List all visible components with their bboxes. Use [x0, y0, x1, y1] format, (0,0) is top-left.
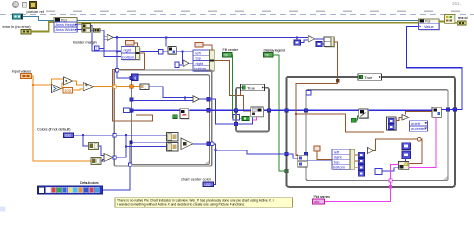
- wire percent into loop: [94, 86, 132, 88]
- constant boolean in C: [242, 116, 249, 120]
- constant numeric near scale: [294, 40, 300, 45]
- function divide: [64, 77, 73, 85]
- for-loop E frame: [306, 90, 448, 181]
- wire diamond up to lines node: [405, 112, 432, 115]
- wire down into loop: [117, 37, 130, 78]
- constant 32: [316, 42, 322, 47]
- node set pen state: [359, 109, 369, 119]
- constant rect in E: [314, 146, 320, 151]
- bundle right/bottom: [121, 47, 140, 61]
- function multiply percent: [83, 83, 93, 91]
- constant 100: [63, 87, 72, 93]
- node empty picture: [124, 108, 131, 113]
- wire plot names pink: [325, 165, 399, 202]
- svg-text:2: 2: [95, 47, 97, 51]
- tunnel pair right edge: [207, 97, 211, 101]
- comment free label: [115, 198, 293, 207]
- tunnel count in C: [234, 122, 237, 125]
- case D selector: [358, 74, 381, 80]
- constant boolean in E: [351, 118, 356, 122]
- wire to bundle a: [126, 134, 167, 136]
- wire count inside C: [238, 117, 253, 124]
- function max compare: [183, 60, 189, 66]
- tunnel picture out E: [446, 108, 449, 111]
- node draw legend text: [251, 107, 265, 118]
- wire i chain: [133, 99, 193, 101]
- wire colors: [74, 134, 126, 136]
- wire const to draw text: [382, 168, 398, 171]
- node junction orange: [32, 84, 34, 86]
- node destroy subvi: [445, 15, 456, 25]
- function quotient height: [82, 24, 91, 28]
- tunnel select out: [113, 156, 116, 159]
- wire size right: [149, 87, 193, 98]
- loop E corner glyph: [443, 176, 447, 180]
- terminal Fill center boolean: [223, 53, 233, 58]
- node unbundle boundaries: [332, 149, 355, 170]
- wire boolean to pen: [356, 116, 359, 120]
- terminal Plot names: [313, 199, 325, 204]
- wire convert to draw node: [163, 51, 168, 53]
- junction ring brown: [417, 137, 421, 141]
- node draw arc: [180, 109, 190, 120]
- wire cluster inside D: [296, 82, 338, 155]
- case C selector: [241, 84, 265, 90]
- wire branch down: [184, 97, 186, 100]
- wire width to scale: [91, 29, 94, 31]
- toolbar icon pause: [23, 3, 27, 8]
- wire cluster branch: [296, 114, 384, 132]
- wire display legend boolean: [273, 55, 285, 171]
- loop E conditional box: [306, 90, 311, 95]
- node junction: [165, 36, 167, 38]
- tunnel blue lower on loop B: [130, 98, 133, 101]
- wire const pair to node: [405, 159, 407, 162]
- node junction: [116, 50, 118, 52]
- ring constants alignment: [410, 121, 428, 131]
- wire stubs unbundle to bubbles: [355, 155, 359, 167]
- svg-text:abc: abc: [314, 200, 320, 204]
- wire error in: [31, 22, 54, 32]
- svg-text:bottom: bottom: [333, 165, 345, 170]
- tunnel picture out D: [453, 108, 456, 111]
- wire brown pen drop: [344, 114, 346, 118]
- svg-text:261,.: 261,.: [452, 1, 462, 6]
- terminal error in: [21, 29, 31, 34]
- constant picture convert: [159, 50, 164, 55]
- wire cluster down into big case: [334, 42, 338, 84]
- wire rect const to unbundle: [317, 151, 332, 159]
- wire up to divide: [51, 79, 63, 85]
- property node Value: [419, 19, 441, 31]
- function subtract margin: [107, 34, 113, 40]
- constant small blue: [175, 62, 179, 68]
- wire pink string out: [409, 117, 436, 168]
- wire to convert box: [117, 50, 159, 52]
- svg-text:::: ::: [144, 86, 146, 90]
- tunnel on loop bottom: [128, 163, 131, 166]
- function select: [104, 154, 113, 162]
- case D frame: [287, 77, 455, 187]
- wire colors in chain: [133, 141, 167, 143]
- tunnel blue top on loop A: [115, 68, 118, 71]
- node array size: [140, 84, 149, 90]
- scrollbar corner smudge: [0, 207, 6, 212]
- tunnel ring: [210, 142, 214, 146]
- tunnel picture right pair: [207, 109, 211, 113]
- wire subvi to error out: [455, 22, 457, 24]
- toolbar icon font: [30, 2, 37, 9]
- tunnel color in D: [285, 152, 288, 155]
- wire error to subvi: [439, 21, 445, 23]
- constant numeric left of case: [233, 114, 240, 120]
- terminal picture ref: [13, 14, 23, 19]
- wire to bundle b: [126, 146, 167, 148]
- wire check2 to select: [101, 159, 104, 161]
- wire picture to value node: [406, 26, 462, 109]
- function min index: [193, 96, 200, 102]
- wire min out tunnel: [200, 98, 211, 100]
- svg-text:I wanted something without Act: I wanted something without Active X and …: [117, 203, 245, 207]
- node junction brown: [295, 113, 297, 115]
- grayed tick labels above boundary: [46, 11, 460, 13]
- tunnel picture in D: [285, 109, 288, 112]
- wire pair to unbundle: [307, 159, 332, 161]
- wire input values main: [32, 76, 92, 161]
- wire build out: [373, 139, 417, 150]
- svg-text:Fill center: Fill center: [223, 48, 239, 52]
- function multiply scale: [308, 36, 315, 42]
- svg-text:chart center color: chart center color: [181, 177, 212, 181]
- bundle left/top/right/bottom: [193, 50, 214, 72]
- wire colors vertical: [115, 135, 127, 157]
- node draw multiple lines: [432, 107, 442, 118]
- tunnel picture on loop B: [130, 109, 133, 112]
- visible-area dashed boundary: [0, 14, 474, 16]
- node draw rectangle top: [168, 47, 177, 55]
- svg-text:error out: error out: [458, 16, 468, 20]
- for-loop inner frame: [132, 75, 210, 165]
- node junction: [125, 134, 127, 136]
- svg-text:Colors (if not default): Colors (if not default): [37, 128, 71, 132]
- node junction: [116, 36, 118, 38]
- function build points: [368, 148, 374, 154]
- svg-text:w.left: w.left: [411, 121, 421, 126]
- function scale node: [94, 28, 101, 32]
- case C frame: [236, 88, 269, 132]
- wire picture ref to property node: [23, 17, 55, 21]
- node junction: [184, 96, 186, 98]
- svg-text:Border margin: Border margin: [73, 41, 97, 45]
- svg-text:Default colors: Default colors: [80, 181, 99, 185]
- terminal Colors: [63, 133, 73, 138]
- constant Border margin 2: [94, 46, 99, 51]
- wire border margin to subtract: [99, 47, 104, 49]
- toolbar icon run-arrow: [13, 2, 19, 8]
- wire pair to diamond: [396, 117, 402, 120]
- svg-text:picture ref: picture ref: [27, 10, 45, 14]
- tunnel pink loop E bottom: [389, 179, 392, 182]
- function add array elements: [51, 84, 61, 92]
- loop count N: [132, 74, 139, 81]
- wire const to multiply: [300, 40, 308, 43]
- node draw text in rect: [399, 162, 410, 171]
- node junction colors: [82, 134, 84, 136]
- bundle small cluster: [324, 37, 335, 47]
- node empty array check 2: [91, 158, 101, 165]
- wire height to bundle: [91, 26, 122, 51]
- svg-text:w.center: w.center: [411, 126, 426, 131]
- wire const up to bus: [296, 37, 298, 40]
- property node Pict (Area Height / Area Width): [54, 18, 78, 33]
- node empty array check: [89, 143, 99, 150]
- svg-text:TF: TF: [265, 53, 269, 57]
- wire to big case: [214, 144, 285, 154]
- wire refnum chain to Value node: [77, 19, 419, 21]
- tunnel colors loop A: [113, 134, 116, 137]
- wire check1 to select: [99, 146, 105, 156]
- constant default colors array: [37, 186, 102, 194]
- node index pair: [298, 155, 308, 167]
- wire rect const into bundle: [134, 43, 138, 47]
- tunnel picture in E: [304, 109, 307, 112]
- wire down to draw text: [409, 139, 422, 163]
- wire Area Width out: [77, 28, 83, 30]
- terminal chart center color: [203, 182, 213, 187]
- wire 100 to multiply: [72, 89, 83, 90]
- wire default colors: [103, 142, 134, 190]
- svg-text:bottom: bottom: [122, 54, 134, 59]
- bundle color b: [167, 143, 179, 152]
- svg-text:Value: Value: [424, 24, 434, 29]
- svg-text:Input values: Input values: [12, 69, 32, 73]
- wire rect const 2 into bundle: [203, 45, 212, 50]
- tunnel picture out C: [267, 109, 270, 112]
- tunnel blue on loop B left: [130, 76, 133, 79]
- svg-text:Display legend: Display legend: [264, 48, 286, 52]
- tunnel picture in C: [234, 109, 237, 112]
- wire draw out: [176, 51, 193, 53]
- constant rect above bundle: [126, 41, 134, 46]
- svg-text:TF: TF: [224, 53, 228, 57]
- wire pink stub in C: [253, 117, 257, 120]
- constant boolean in loop: [173, 115, 178, 119]
- svg-text:True: True: [247, 85, 255, 90]
- wire to sum: [33, 84, 51, 86]
- wire error chain to Value node: [77, 22, 419, 24]
- terminal error out: [457, 21, 466, 25]
- function quotient width: [82, 28, 91, 32]
- tunnel colors in: [129, 141, 132, 144]
- wire compare to bundle: [189, 62, 193, 64]
- function pick color: [181, 138, 193, 150]
- tunnel orange on loop A: [113, 85, 116, 88]
- tunnel orange on loop B: [130, 85, 133, 88]
- wire color into pair: [288, 154, 298, 158]
- wire const to compare: [179, 64, 183, 66]
- svg-text:Area Width: Area Width: [56, 27, 75, 32]
- bundle color a: [167, 133, 179, 142]
- wire down to draw rect node: [165, 37, 167, 46]
- tunnel out: [207, 142, 211, 146]
- wire fill center boolean: [232, 55, 242, 118]
- wire divide out: [73, 81, 84, 85]
- wire down to compare: [181, 52, 184, 64]
- svg-text:U32: U32: [65, 134, 71, 138]
- terminal Display legend boolean: [264, 53, 274, 58]
- constants pair above draw text: [402, 143, 411, 159]
- for-loop outer frame: [114, 70, 212, 166]
- wire Area Height out: [77, 24, 83, 26]
- wire bundle2 cluster out: [214, 61, 252, 111]
- wire pick out: [193, 143, 211, 145]
- svg-text:True: True: [364, 75, 372, 80]
- wire to case select: [210, 99, 234, 124]
- wire colors down to empty check: [83, 135, 89, 146]
- node tunnel dot on case top: [336, 79, 339, 82]
- node junction: [215, 149, 217, 151]
- loop corner glyph: [205, 161, 210, 165]
- terminal Input values: [21, 74, 32, 79]
- wire bundle1 cluster out: [112, 53, 152, 121]
- constant rect above bundle2: [195, 43, 203, 48]
- tunnel color in E: [304, 152, 307, 155]
- node junction tunnel dot: [453, 108, 456, 111]
- wire green display into D: [285, 169, 288, 172]
- svg-text:Plot names: Plot names: [314, 195, 331, 199]
- node junction: [181, 51, 183, 53]
- wire into bundle3: [315, 38, 324, 40]
- svg-text:100: 100: [64, 88, 71, 93]
- svg-text:U32: U32: [204, 183, 210, 187]
- conversion bubbles column: [358, 152, 364, 176]
- tunnel pink case D bottom: [389, 185, 392, 188]
- svg-text:error in (no error): error in (no error): [3, 25, 32, 29]
- wire main size bus: [113, 36, 308, 38]
- constant small blue left of draw text: [375, 169, 382, 175]
- svg-text:right: right: [124, 48, 132, 53]
- node xy pair: [387, 117, 397, 131]
- wire taps to triangle: [104, 35, 107, 37]
- wire sum to divide: [61, 83, 64, 89]
- wire scale to min triangle: [100, 30, 121, 56]
- function scale diamond: [402, 115, 409, 121]
- wire chart center color up: [213, 150, 215, 184]
- wire picture chain: [130, 109, 432, 111]
